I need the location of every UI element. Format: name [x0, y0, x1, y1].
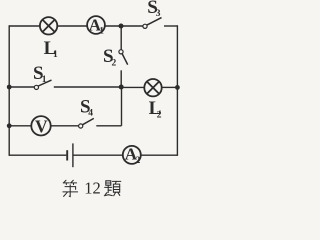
wire row3: S4 to corner	[96, 125, 121, 127]
switch S4	[79, 118, 94, 128]
lamp L1	[40, 17, 57, 34]
wire row3 riser: corner up to J2	[121, 87, 123, 126]
node J1 junction dot	[119, 24, 124, 29]
caption: 第 12 题	[63, 180, 121, 196]
wire row2: J2 to lamp L2	[121, 86, 144, 88]
svg-text:2: 2	[112, 58, 117, 68]
svg-text:4: 4	[88, 108, 93, 118]
switch S1	[34, 80, 51, 89]
svg-text:2: 2	[157, 110, 162, 120]
wire bottom row: left corner to battery	[9, 154, 66, 156]
wire row2: left to S1 pivot	[9, 86, 34, 88]
node left-row2 junction dot	[7, 85, 12, 90]
svg-text:1: 1	[53, 50, 58, 60]
wire S2 branch upper: J1 down to S2 pivot	[120, 26, 122, 50]
ammeter A1	[87, 16, 105, 34]
switch S3	[143, 18, 162, 29]
svg-text:1: 1	[42, 75, 47, 85]
battery cell	[67, 143, 73, 167]
wire bottom row: A2 to right corner	[141, 154, 178, 156]
hanzi TI (题)	[104, 181, 121, 196]
svg-text:12: 12	[84, 179, 101, 198]
wire row3: V to S4 pivot	[51, 125, 79, 127]
svg-text:1: 1	[99, 27, 104, 37]
wire top row: A1 to junction J1	[105, 25, 121, 27]
svg-text:2: 2	[136, 156, 141, 166]
wire left vertical	[8, 25, 10, 156]
wire top row: J1 to S3 pivot	[121, 25, 143, 27]
wire bottom row: battery to A2	[73, 154, 123, 156]
wire top row: S3 to right corner	[164, 25, 177, 27]
wire right vertical	[176, 25, 178, 156]
node J2 junction dot	[119, 85, 124, 90]
node right-row2 junction dot	[175, 85, 180, 90]
svg-text:V: V	[35, 116, 48, 136]
voltmeter V	[31, 116, 50, 135]
node left-row3 junction dot	[7, 123, 12, 128]
wire row2: S1 to junction J2	[54, 86, 121, 88]
wire row2: L2 to right wire	[162, 86, 178, 88]
wire top row: left corner to L1	[9, 25, 40, 27]
switch S2	[119, 50, 128, 65]
ammeter A2	[123, 146, 141, 164]
hanzi DI (第)	[63, 180, 78, 196]
wire S2 branch lower: below S2 down to J2	[120, 70, 122, 87]
lamp L2	[144, 79, 161, 96]
wire row3: left to V	[9, 125, 31, 127]
wire top row: L1 to A1	[57, 25, 87, 27]
svg-text:3: 3	[156, 9, 161, 19]
